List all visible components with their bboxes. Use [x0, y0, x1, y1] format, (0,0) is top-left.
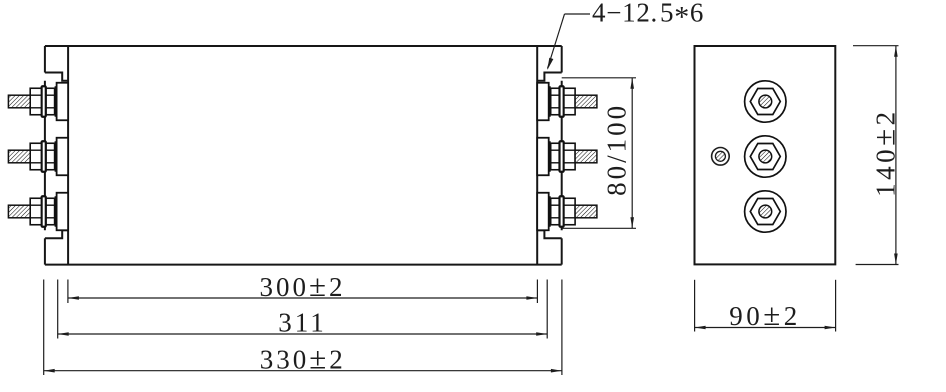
side-view terminal T3: stud end (hatched)	[759, 205, 772, 218]
svg-text:4−12.5*6: 4−12.5*6	[592, 0, 704, 34]
ground screw	[712, 148, 730, 166]
side-view terminal T1: stud end (hatched)	[759, 95, 772, 108]
right terminal T1: washer	[560, 86, 564, 117]
right terminal T1: outer hex nut	[564, 88, 575, 115]
right flange outer edge (upper segment)	[561, 46, 563, 73]
svg-text:140±2: 140±2	[866, 108, 901, 197]
right terminal T3: washer	[560, 196, 564, 227]
dimension 90±2 extension lines	[694, 280, 696, 332]
left terminal T1: insulator bushing	[8, 83, 68, 121]
left terminal T3: washer	[42, 196, 46, 227]
side-view terminal T2: stud end (hatched)	[759, 150, 772, 163]
right terminal T1: insulator bushing	[537, 83, 597, 121]
left flange outer edge (middle segment)	[44, 81, 46, 231]
right terminal T2: insulator bushing	[537, 138, 597, 176]
right flange top slot	[537, 73, 562, 81]
right terminal T3: inner hex nut	[551, 198, 560, 225]
left flange top slot (4-12.5*6 notch)	[45, 73, 68, 81]
left flange bottom slot	[45, 230, 68, 238]
left terminal T2: inner hex nut	[46, 143, 55, 170]
right terminal T1: inner hex nut	[551, 88, 560, 115]
dimension 300±2 extension lines	[67, 280, 69, 304]
side-view terminal T3: outer circle	[745, 191, 786, 232]
side view outline	[695, 46, 836, 264]
left terminal T3: bushing lip (thick edge)	[55, 196, 57, 227]
dimension 90±2 line	[695, 327, 836, 329]
left terminal T1: outer hex nut	[30, 88, 41, 115]
left terminal T3: insulator bushing	[8, 193, 68, 231]
body bottom edge	[45, 264, 562, 266]
right terminal T3: outer hex nut	[564, 198, 575, 225]
side-view terminal T3: hex nut	[750, 199, 780, 225]
side-view terminal T1: outer circle	[745, 81, 786, 122]
dimension 140±2 line	[895, 46, 897, 265]
right flange outer edge (lower segment)	[561, 238, 563, 264]
left terminal T1: threaded stud (hatched)	[8, 95, 30, 108]
dimension 300±2 line	[68, 297, 538, 299]
svg-text:300±2: 300±2	[259, 268, 345, 303]
side-view terminal T2: hex nut	[750, 144, 780, 170]
dimension 330±2 extension lines	[43, 280, 45, 376]
leader 4-12.5*6	[547, 14, 590, 70]
right terminal T2: bushing lip (thick edge)	[549, 141, 551, 172]
right terminal T1: bushing lip (thick edge)	[549, 86, 551, 117]
svg-text:90±2: 90±2	[729, 297, 801, 332]
left flange outer edge (upper segment)	[44, 46, 46, 73]
right flange bottom slot	[537, 230, 562, 238]
right terminal T1: threaded stud (hatched)	[575, 95, 597, 108]
left terminal T2: threaded stud (hatched)	[8, 150, 30, 163]
left terminal T2: washer	[42, 141, 46, 172]
right terminal T2: washer	[560, 141, 564, 172]
svg-text:80/100: 80/100	[602, 103, 632, 196]
body left wall	[67, 46, 69, 265]
right terminal T3: threaded stud (hatched)	[575, 205, 597, 218]
dimension 311 extension lines	[57, 280, 59, 339]
left terminal T2: insulator bushing	[8, 138, 68, 176]
left terminal T2: bushing lip (thick edge)	[55, 141, 57, 172]
dimension 140±2 extension lines	[853, 45, 899, 47]
left terminal T3: outer hex nut	[30, 198, 41, 225]
left terminal T2: outer hex nut	[30, 143, 41, 170]
right terminal T2: outer hex nut	[564, 143, 575, 170]
left terminal T1: bushing lip (thick edge)	[55, 86, 57, 117]
right terminal T2: inner hex nut	[551, 143, 560, 170]
side-view terminal T1: hex nut	[750, 89, 780, 115]
body right wall	[536, 46, 538, 265]
left terminal T1: inner hex nut	[46, 88, 55, 115]
svg-text:311: 311	[278, 308, 327, 338]
right flange outer edge (middle segment)	[561, 81, 563, 231]
svg-text:330±2: 330±2	[260, 341, 346, 376]
dimension 80/100 line	[631, 78, 633, 229]
left flange outer edge (lower segment)	[44, 238, 46, 264]
side-view terminal T2: outer circle	[745, 136, 786, 177]
dimension 311 line	[58, 333, 548, 335]
right terminal T2: threaded stud (hatched)	[575, 150, 597, 163]
right terminal T3: bushing lip (thick edge)	[549, 196, 551, 227]
body top edge	[45, 45, 562, 47]
dimension 80/100 extension lines	[562, 77, 636, 79]
dimension 330±2 line	[44, 370, 562, 372]
right terminal T3: insulator bushing	[537, 193, 597, 231]
left terminal T3: inner hex nut	[46, 198, 55, 225]
left terminal T1: washer	[42, 86, 46, 117]
left terminal T3: threaded stud (hatched)	[8, 205, 30, 218]
